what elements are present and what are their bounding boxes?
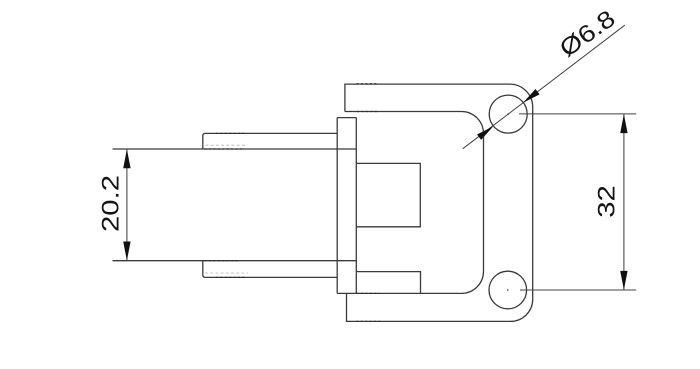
- svg-text:20.2: 20.2: [97, 175, 124, 232]
- dimension 32 extension lines: [519, 114, 636, 290]
- hole top circle: [489, 95, 527, 133]
- collar outline top: [203, 133, 337, 149]
- tab top edge: [337, 117, 356, 119]
- tab right edge: [355, 118, 357, 294]
- hidden line overlays dark: [205, 84, 381, 322]
- plate inner profile: [337, 112, 483, 294]
- wire tube top edge: [113, 148, 357, 150]
- faint hidden bore lines: [205, 145, 248, 273]
- plate outer profile: [345, 84, 533, 321]
- wire tube bottom edge: [113, 260, 357, 262]
- plate left edge: [336, 118, 338, 294]
- dimension 20.2: [126, 149, 128, 261]
- leader line for diameter: [463, 25, 625, 149]
- notch A: [356, 163, 420, 226]
- leader arrowheads: [477, 126, 493, 140]
- notch B: [356, 272, 420, 294]
- svg-text:32: 32: [593, 185, 620, 218]
- collar outline bottom: [203, 261, 337, 278]
- hole center dots: [507, 113, 509, 115]
- hole bottom circle: [489, 271, 527, 309]
